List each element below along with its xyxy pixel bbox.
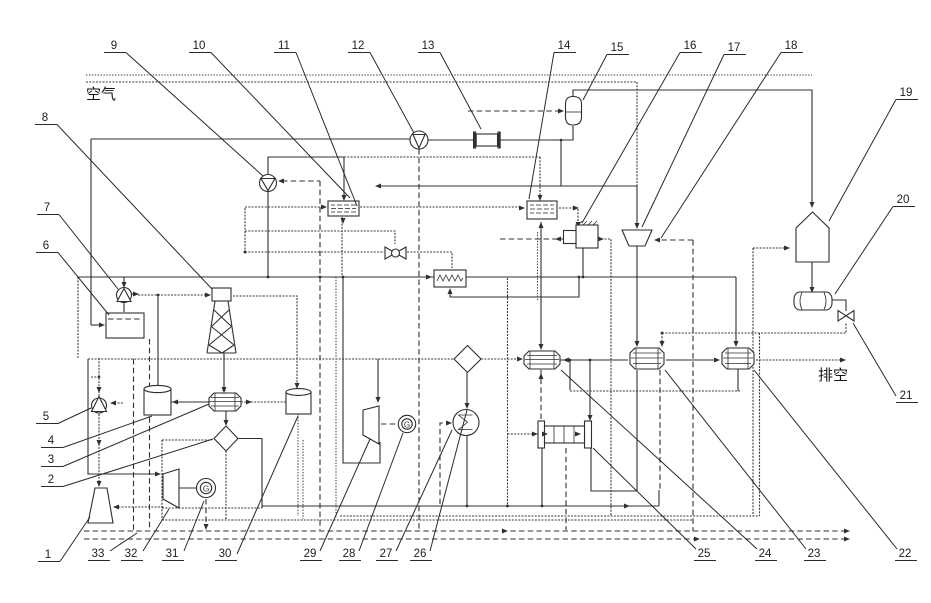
wire dashed riser x693: [692, 240, 694, 531]
wire dashed y240 from right: [654, 238, 693, 243]
wire tower to hx 3: [222, 353, 227, 393]
tank 6: [106, 313, 144, 338]
turbine 29: [363, 406, 379, 444]
wire pump 7 legs: [122, 277, 127, 312]
svg-text:15: 15: [611, 42, 624, 54]
membrane unit 10/11: [328, 201, 359, 224]
label 6: [36, 253, 109, 316]
label 10: [189, 53, 350, 199]
label 1: [38, 517, 90, 562]
label 20: [835, 207, 915, 295]
wire dotted y207 membrane chain: [245, 205, 525, 211]
wire turbine 29 feed and casing: [342, 276, 381, 463]
wire air rail lower: [86, 81, 637, 83]
motor 27: [453, 410, 479, 436]
svg-text:25: 25: [698, 548, 711, 560]
wire air line through fan and filter: [91, 126, 573, 140]
wire dashed bus y539: [84, 537, 850, 542]
pump 5: [92, 397, 124, 414]
hx 23: [630, 348, 664, 369]
valve 11 outlet: [385, 247, 406, 259]
label 18: [661, 53, 803, 239]
wire dotted box x162: [162, 440, 212, 520]
wire pump 9 down leg: [267, 191, 270, 278]
label 28: [339, 433, 403, 561]
cone 1: [88, 488, 113, 523]
wire branch x561: [560, 139, 563, 186]
svg-text:30: 30: [219, 548, 232, 560]
svg-text:6: 6: [43, 240, 49, 252]
wire dashed riser x149: [149, 339, 151, 530]
svg-text:G: G: [404, 421, 410, 430]
svg-text:7: 7: [44, 202, 50, 214]
label 5: [36, 408, 91, 424]
cooling tower 8: [207, 288, 236, 353]
label 29: [300, 439, 370, 561]
wire pump 5 dotted legs: [91, 358, 102, 487]
svg-text:14: 14: [558, 40, 571, 52]
diamond mixer 26: [454, 346, 481, 373]
wire G2 dashed drop: [204, 499, 209, 530]
label 21: [853, 323, 918, 403]
wire dotted drop to compressor 17: [636, 82, 638, 186]
wire diamond 2 drop dotted: [225, 451, 227, 520]
svg-text:23: 23: [808, 548, 821, 560]
label 8: [35, 125, 212, 290]
svg-text:排空: 排空: [818, 367, 848, 384]
svg-text:16: 16: [684, 40, 697, 52]
wire air rail upper: [86, 74, 812, 76]
wire dashed feed into vessel 15: [468, 109, 564, 114]
svg-text:13: 13: [422, 40, 435, 52]
exchanger 25 segmented: [538, 421, 592, 448]
svg-text:5: 5: [43, 411, 49, 423]
svg-text:31: 31: [166, 548, 179, 560]
wire dashed feed compressor 16: [500, 237, 563, 242]
diamond 2: [214, 426, 238, 451]
generator 31: [179, 479, 216, 498]
wire dotted bus y520: [162, 519, 693, 521]
label 7: [37, 215, 118, 290]
wire hx24 side drops: [569, 359, 593, 421]
wire dotted y231 to valve top: [245, 231, 395, 244]
wire dotted y331: [660, 322, 847, 347]
svg-text:29: 29: [304, 548, 317, 560]
wire dotted y252 valve run: [245, 252, 452, 268]
wire dotted left riser x245: [244, 208, 247, 254]
svg-text:G: G: [203, 484, 210, 494]
label 13: [418, 53, 481, 130]
turbine 32: [163, 469, 179, 508]
vent text: [818, 367, 848, 384]
wire hx3 to diamond 2: [224, 410, 229, 426]
wire dotted recycle y391: [570, 369, 740, 391]
wire seg exchanger bottom legs: [541, 370, 637, 530]
wire dotted drop to tank 30: [233, 296, 303, 519]
wire header y186: [375, 184, 640, 230]
svg-text:3: 3: [48, 454, 54, 466]
pump 9: [260, 175, 277, 192]
svg-text:21: 21: [900, 390, 913, 402]
wire diamond 26 to motor: [465, 373, 470, 507]
svg-text:10: 10: [193, 40, 206, 52]
turbo expander 17: [622, 230, 652, 246]
wire dotted feed exchanger 25: [506, 278, 538, 507]
wire cooler loop under header: [448, 276, 581, 297]
wire dashed bus y531: [84, 529, 850, 534]
svg-text:4: 4: [48, 435, 55, 447]
label 9: [104, 53, 263, 177]
wire turbo 17 down leg: [635, 246, 640, 347]
wire diamond 2 right outlet: [238, 439, 262, 509]
pump 7: [117, 288, 140, 303]
label 19: [829, 100, 918, 222]
wire dashed hx24 top: [538, 222, 544, 350]
wire fan dashed drop: [418, 149, 420, 529]
vessel 15: [566, 97, 582, 126]
hx 22: [722, 348, 754, 369]
wire hx3 to tank 30: [241, 400, 286, 405]
air inlet text: [86, 86, 116, 103]
label 11: [274, 53, 357, 207]
WIRES-BOT: [84, 490, 850, 542]
svg-text:17: 17: [728, 42, 741, 54]
label 26: [410, 410, 467, 561]
wire left box edge: [91, 139, 105, 328]
wire dotted riser x757: [753, 246, 790, 517]
label 22: [754, 370, 917, 561]
wire tank4 riser: [157, 295, 159, 386]
svg-text:19: 19: [900, 87, 913, 99]
svg-text:28: 28: [343, 548, 356, 560]
svg-text:32: 32: [125, 548, 138, 560]
wire turbine 32 feed: [88, 359, 161, 477]
drum 20: [794, 292, 832, 310]
tank 30 cylinder: [286, 389, 311, 414]
label 24: [561, 370, 777, 561]
filter 13: [473, 132, 501, 149]
tank 4 cylinder: [144, 385, 171, 415]
WIRES-MID: [88, 149, 846, 531]
label 12: [348, 53, 414, 134]
svg-text:26: 26: [414, 548, 427, 560]
label 25: [593, 448, 716, 561]
fan 12: [410, 131, 428, 149]
label 16: [582, 53, 702, 224]
svg-text:2: 2: [48, 474, 54, 486]
wire dotted bus y516: [340, 515, 760, 517]
svg-text:22: 22: [899, 548, 912, 560]
svg-text:8: 8: [42, 112, 48, 124]
wire compressor 16 down leg: [582, 248, 585, 278]
wire diamond 26 to hx 24 dotted: [481, 357, 523, 362]
svg-text:18: 18: [785, 40, 798, 52]
wire top solid header to vessel 19: [573, 90, 815, 208]
svg-text:1: 1: [45, 549, 51, 561]
wire dotted drop from unit 11: [336, 217, 342, 518]
wire pump top loop y157: [268, 157, 543, 201]
wire cone return dotted: [113, 505, 164, 510]
valve 21: [838, 311, 854, 322]
label 3: [41, 404, 209, 467]
svg-text:空气: 空气: [86, 86, 116, 103]
wire dotted riser x761: [759, 333, 761, 516]
wire vessel19 to drum 20: [810, 262, 815, 293]
label 31: [162, 501, 204, 561]
heater coil 11: [434, 270, 466, 287]
label 4: [41, 416, 152, 448]
wire dotted rail y359 left: [88, 358, 453, 360]
vessel 19 pentagon: [796, 212, 829, 262]
membrane unit 14: [527, 201, 557, 219]
wire dotted riser x611: [598, 237, 611, 517]
wire drum 20 to valve: [832, 300, 846, 311]
label 15: [583, 55, 629, 101]
wire dashed riser x660: [659, 370, 661, 491]
generator 28: [398, 415, 415, 432]
hx 3: [209, 393, 241, 411]
wire dashed riser x133: [133, 359, 135, 530]
svg-text:12: 12: [352, 40, 365, 52]
compressor 16: [564, 221, 599, 248]
wire dashed hx24 bottom to exchanger 25: [539, 370, 544, 419]
wire hx24 to hx23: [560, 358, 628, 363]
label 23: [665, 370, 826, 561]
svg-text:24: 24: [759, 548, 772, 560]
svg-text:33: 33: [92, 548, 105, 560]
wire hx23 to hx22: [666, 358, 720, 363]
wire shaft dashes turbine G: [381, 421, 452, 505]
hx 24: [524, 351, 560, 369]
label 32: [121, 509, 169, 561]
wire tank4 to hx3: [170, 400, 209, 405]
label 17: [642, 55, 746, 228]
svg-text:20: 20: [897, 194, 910, 206]
svg-text:9: 9: [111, 40, 117, 52]
label 30: [215, 416, 298, 561]
wire dotted y295 to tower: [138, 293, 211, 298]
label 2: [41, 439, 213, 487]
svg-text:11: 11: [278, 40, 290, 52]
label 27: [376, 430, 452, 561]
WIRES-TOP: [78, 75, 846, 530]
wire main header y277: [78, 275, 739, 359]
wire dashed pump 9 feed: [278, 179, 321, 531]
wire solid bus y506: [162, 490, 659, 509]
label 14: [529, 53, 576, 200]
wire vent line dotted: [756, 358, 846, 363]
label 33: [88, 533, 137, 561]
svg-text:27: 27: [380, 548, 393, 560]
wire unit 14 outlet to compressor 16: [559, 206, 581, 229]
